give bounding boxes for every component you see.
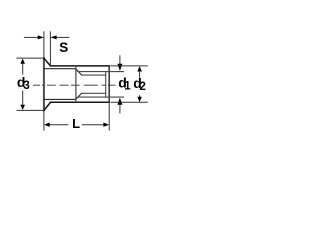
end face (108, 66, 110, 102)
body outer top (51, 65, 110, 67)
L dimension line right (82, 124, 104, 126)
S arrow line right (56, 36, 69, 38)
d3 arrowhead down (20, 105, 25, 110)
svg-text:3: 3 (23, 80, 29, 92)
svg-text:L: L (72, 116, 80, 131)
dimension L (44, 102, 109, 130)
thread lines (78, 72, 124, 98)
L arrowhead right (103, 123, 109, 127)
thread major bottom (also d1 extension) (78, 96, 124, 98)
d2 arrowhead down (137, 97, 142, 102)
d2 arrowhead up (137, 66, 142, 71)
S extension line right (49, 31, 51, 66)
d2 dimension tail bottom (139, 95, 141, 97)
L arrowhead left (44, 123, 50, 127)
head taper bottom (44, 102, 51, 110)
thread minor bottom (82, 92, 106, 94)
dimension d3 (17, 58, 44, 110)
centerline (33, 84, 116, 86)
L extension line right (108, 102, 110, 130)
S extension line left (above head) (43, 31, 45, 58)
body outer bottom (51, 101, 110, 103)
bore step (75, 66, 77, 102)
chamfer top (76, 69, 82, 75)
S arrowhead left (38, 35, 44, 39)
thread end chamfer (105, 72, 107, 98)
d2 dimension tail top (139, 71, 141, 78)
dimension S (24, 31, 70, 66)
thread minor top (82, 74, 106, 76)
dimension d2 (111, 66, 148, 102)
head taper top (44, 58, 51, 66)
bore top (44, 68, 76, 70)
d2 extension line bottom (111, 101, 148, 103)
d3 arrowhead up (20, 59, 25, 64)
S arrowhead right (50, 35, 56, 39)
bore bottom (44, 98, 76, 100)
bore lines (smooth shank bore) (44, 66, 82, 102)
dimension d1 (119, 55, 121, 113)
thread major top (also d1 extension) (78, 71, 124, 73)
svg-text:S: S (59, 40, 68, 55)
d2 extension line top (111, 65, 148, 67)
d1 dimension tail bottom (119, 104, 121, 113)
d1 arrowhead up (117, 98, 122, 105)
rivet nut body outline (44, 58, 109, 110)
d1 dimension tail top (119, 55, 121, 64)
head left face (43, 58, 45, 110)
svg-text:2: 2 (140, 81, 146, 93)
d3 dimension line upper (22, 63, 24, 75)
chamfer bottom (76, 93, 82, 99)
d3 dimension line lower (22, 91, 24, 107)
svg-text:1: 1 (124, 80, 131, 92)
d3 extension line top (17, 57, 44, 59)
L dimension line left (50, 124, 69, 126)
d3 extension line bottom (17, 109, 44, 111)
L extension line left (below head face) (43, 110, 45, 130)
d1 arrowhead down (117, 64, 122, 71)
S arrow line left (24, 36, 39, 38)
